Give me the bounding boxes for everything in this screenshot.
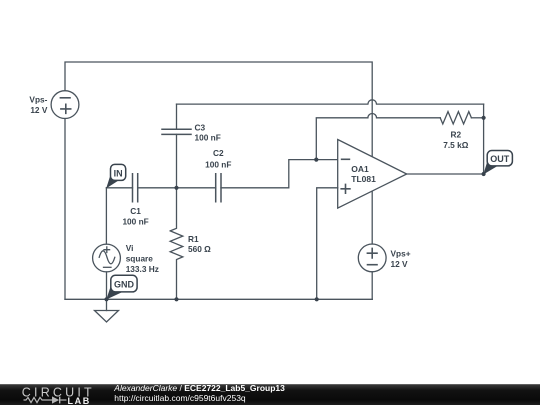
svg-text:R1: R1 xyxy=(188,234,199,244)
svg-text:Vi: Vi xyxy=(126,243,134,253)
resistor R2 xyxy=(440,112,471,124)
svg-text:100 nF: 100 nF xyxy=(195,133,221,143)
svg-text:Vps-: Vps- xyxy=(29,95,47,105)
svg-text:R2: R2 xyxy=(450,130,461,140)
svg-text:LAB: LAB xyxy=(68,396,91,405)
svg-text:100 nF: 100 nF xyxy=(122,217,148,227)
ground xyxy=(106,299,108,310)
wire output vertical xyxy=(483,104,485,174)
junction R2 right node xyxy=(482,116,486,120)
wire IN node to C1 xyxy=(106,187,132,189)
wire Vps- top to op-amp V- supply pin xyxy=(65,62,372,157)
junction node A (C3/C1/C2/R1) xyxy=(174,186,178,190)
logo resistor-diode glyph xyxy=(24,397,67,404)
junction non-inverting to rail node xyxy=(315,297,319,301)
junction R1 bottom node xyxy=(174,297,178,301)
flag OUT xyxy=(483,151,512,175)
wire op-amp non-inverting input to ground rail xyxy=(317,188,338,299)
voltage source Vps+ xyxy=(358,244,386,272)
svg-text:GND: GND xyxy=(114,279,135,289)
wire Vi top to IN node xyxy=(105,188,107,244)
wire R2 to output node xyxy=(471,117,483,119)
svg-text:560 Ω: 560 Ω xyxy=(188,244,211,254)
wire ground rail xyxy=(65,298,372,300)
svg-text:C1: C1 xyxy=(130,206,141,216)
svg-text:IN: IN xyxy=(114,168,123,178)
flag IN xyxy=(106,164,126,188)
svg-text:Vps+: Vps+ xyxy=(391,248,411,258)
svg-text:C2: C2 xyxy=(213,148,224,158)
svg-text:http://circuitlab.com/c959t6uf: http://circuitlab.com/c959t6ufv253q xyxy=(114,393,246,403)
junction GND node xyxy=(104,297,108,301)
wire C3 bottom lead to node A xyxy=(176,134,178,187)
wire Vps+ bottom to ground rail xyxy=(371,272,373,300)
wire inverting node to R2 with hop xyxy=(316,114,440,160)
capacitor C1 xyxy=(133,174,138,202)
wire Vi bottom to ground rail xyxy=(106,272,108,299)
voltage source Vi xyxy=(93,244,121,272)
wire C3 top lead xyxy=(176,104,178,129)
svg-text:OA1: OA1 xyxy=(351,164,369,174)
svg-text:133.3 Hz: 133.3 Hz xyxy=(126,264,159,274)
svg-text:7.5 kΩ: 7.5 kΩ xyxy=(443,140,468,150)
svg-text:12 V: 12 V xyxy=(30,105,48,115)
wire op-amp output xyxy=(407,173,484,175)
footer bar xyxy=(0,384,540,405)
junction output node xyxy=(482,172,486,176)
wire Vps- bottom to ground rail xyxy=(64,119,66,300)
voltage source Vps- xyxy=(51,91,79,119)
svg-text:AlexanderClarke / ECE2722_Lab5: AlexanderClarke / ECE2722_Lab5_Group13 xyxy=(113,383,285,393)
wire C2 to inverting input xyxy=(221,160,338,188)
wire C3 feedback to output (top) with hop xyxy=(177,100,484,104)
op-amp U1 triangle xyxy=(338,140,407,209)
svg-text:C3: C3 xyxy=(195,123,206,133)
capacitor C3 xyxy=(162,129,191,134)
svg-text:100 nF: 100 nF xyxy=(205,160,231,170)
wire C1 to node A xyxy=(138,187,216,189)
flag GND xyxy=(106,275,137,299)
wire op-amp V+ supply pin to Vps+ xyxy=(371,191,373,244)
capacitor C2 xyxy=(216,174,221,202)
svg-text:12 V: 12 V xyxy=(391,259,409,269)
resistor R1 xyxy=(170,188,183,299)
svg-text:square: square xyxy=(126,254,154,264)
junction inverting input node xyxy=(314,158,318,162)
svg-text:TL081: TL081 xyxy=(351,174,376,184)
svg-text:OUT: OUT xyxy=(490,154,510,164)
